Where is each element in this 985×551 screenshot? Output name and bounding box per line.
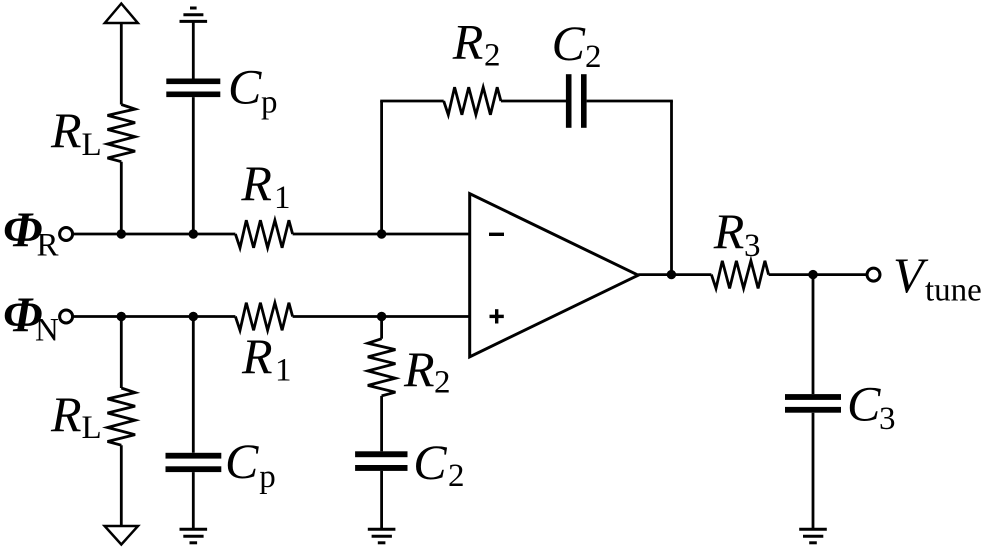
junction Cp / PhiR bbox=[189, 229, 198, 238]
label R_2 (vertical) bbox=[403, 341, 451, 401]
supply arrow (top-left, up) bbox=[105, 4, 138, 24]
wire R1 to inverting input bbox=[293, 233, 470, 236]
svg-text:C: C bbox=[225, 433, 259, 489]
label C_p (bottom) bbox=[225, 433, 276, 495]
junction RL / PhiR bbox=[117, 229, 126, 238]
svg-text:R: R bbox=[37, 228, 59, 264]
wire PhiR line left bbox=[74, 233, 235, 236]
svg-text:R: R bbox=[713, 203, 745, 259]
label V_tune bbox=[893, 247, 982, 309]
svg-text:R: R bbox=[403, 341, 435, 397]
label R_1 (bottom) bbox=[241, 328, 292, 389]
svg-text:tune: tune bbox=[925, 273, 982, 309]
node Vtune output terminal bbox=[867, 268, 880, 281]
label C_2 (bottom) bbox=[413, 434, 464, 494]
svg-text:p: p bbox=[261, 85, 278, 121]
wire arrow to RL top bbox=[120, 23, 123, 105]
wire R2 to C2 (feedback) bbox=[501, 100, 566, 103]
wire PhiN to RL bottom bbox=[120, 317, 123, 389]
svg-text:2: 2 bbox=[448, 458, 465, 494]
junction non-inverting node bbox=[377, 312, 386, 321]
svg-text:C: C bbox=[228, 58, 262, 114]
resistor R2 (feedback) bbox=[444, 87, 501, 115]
capacitor Cp (bottom) bbox=[166, 453, 222, 472]
wire feedback top left bbox=[380, 100, 444, 103]
junction C3 node bbox=[808, 270, 817, 279]
resistor R3 bbox=[711, 261, 768, 289]
capacitor C2 (bottom) bbox=[355, 451, 407, 471]
wire C2 bottom to ground bbox=[380, 471, 383, 529]
label R_3 bbox=[713, 203, 761, 264]
label Phi_R bbox=[3, 201, 59, 264]
svg-text:R: R bbox=[240, 155, 272, 211]
resistor R1 (top) bbox=[235, 220, 292, 248]
capacitor C3 bbox=[785, 394, 841, 413]
junction output / feedback bbox=[667, 270, 676, 279]
wire R1 to non-inverting input bbox=[293, 315, 470, 318]
wire RL bottom to PhiR line bbox=[120, 162, 123, 234]
wire R2 vertical to C2 bottom bbox=[380, 396, 383, 451]
svg-text:C: C bbox=[413, 434, 447, 490]
wire R3 to Vtune terminal bbox=[769, 273, 867, 276]
label C_p (top) bbox=[228, 58, 278, 120]
wire Cp bottom to ground bbox=[192, 472, 195, 529]
resistor R1 (bottom) bbox=[235, 303, 292, 331]
ground (top, above Cp) bbox=[180, 8, 208, 21]
svg-text:1: 1 bbox=[275, 353, 292, 389]
wire node to R2 vertical bbox=[380, 317, 383, 339]
svg-text:p: p bbox=[259, 459, 276, 495]
node PhiR input terminal bbox=[60, 228, 73, 241]
supply arrow (bottom-left, down) bbox=[105, 526, 138, 545]
wire C3 to ground bbox=[812, 413, 815, 530]
svg-text:R: R bbox=[241, 328, 273, 384]
junction Cp / PhiN bbox=[189, 312, 198, 321]
svg-text:C: C bbox=[847, 375, 881, 431]
label R_2 (feedback) bbox=[452, 14, 501, 74]
capacitor Cp (top) bbox=[166, 79, 220, 98]
junction RL / PhiN bbox=[117, 312, 126, 321]
svg-text:C: C bbox=[552, 15, 586, 71]
ground (under C2 bottom) bbox=[368, 529, 396, 543]
svg-text:R: R bbox=[50, 386, 82, 442]
capacitor C2 (feedback) bbox=[566, 74, 587, 128]
svg-text:L: L bbox=[82, 127, 102, 163]
label R_1 (top) bbox=[240, 155, 290, 216]
wire feedback left vertical bbox=[380, 101, 383, 234]
ground (under Cp bottom) bbox=[180, 529, 208, 543]
svg-text:2: 2 bbox=[585, 39, 602, 75]
op-amp U1 bbox=[470, 194, 639, 357]
label R_L (bottom) bbox=[50, 386, 102, 446]
svg-text:L: L bbox=[82, 410, 102, 446]
wire feedback right vertical bbox=[670, 101, 673, 275]
wire op-amp output bbox=[638, 273, 711, 276]
wire PhiN to Cp bottom bbox=[192, 317, 195, 453]
svg-text:2: 2 bbox=[484, 38, 501, 74]
node PhiN input terminal bbox=[60, 310, 73, 323]
svg-text:R: R bbox=[452, 14, 484, 70]
svg-text:3: 3 bbox=[744, 228, 761, 264]
svg-text:N: N bbox=[35, 312, 59, 348]
ground (under C3) bbox=[799, 529, 827, 543]
wire C2 to feedback right corner bbox=[587, 100, 673, 103]
junction inverting node bbox=[377, 229, 386, 238]
resistor RL (top) bbox=[108, 105, 136, 162]
wire C3 node down bbox=[812, 275, 815, 395]
wire top ground to Cp bbox=[192, 21, 195, 78]
wire Cp to PhiR line bbox=[192, 97, 195, 234]
wire RL bottom to arrow bbox=[120, 445, 123, 526]
resistor RL (bottom) bbox=[108, 388, 136, 445]
resistor R2 (vertical) bbox=[368, 339, 396, 396]
svg-text:1: 1 bbox=[274, 180, 291, 216]
svg-text:R: R bbox=[50, 102, 82, 158]
svg-text:3: 3 bbox=[879, 401, 896, 437]
svg-text:2: 2 bbox=[434, 365, 451, 401]
label C_3 bbox=[847, 375, 896, 437]
wire PhiN line left bbox=[74, 315, 235, 318]
label C_2 (feedback) bbox=[552, 15, 602, 75]
label R_L (top) bbox=[50, 102, 102, 163]
label Phi_N bbox=[3, 286, 59, 348]
